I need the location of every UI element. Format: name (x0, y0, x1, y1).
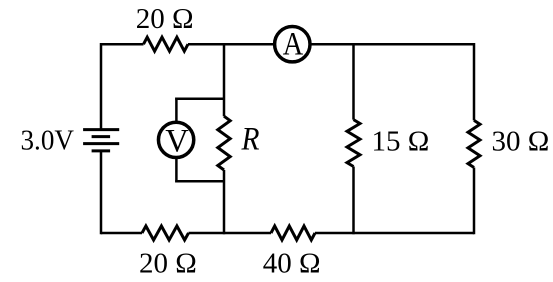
svg-text:40 Ω: 40 Ω (263, 248, 321, 280)
wire bottom middle segment (189, 232, 272, 235)
wire left rail upper (battery top lead) (100, 43, 103, 130)
svg-text:A: A (283, 27, 304, 63)
wire right rail upper (473, 43, 476, 120)
svg-text:V: V (165, 123, 189, 159)
wire 15ohm branch lower (352, 167, 355, 235)
wire top middle segment (188, 43, 274, 46)
resistor R30 (30 ohm) (468, 120, 480, 167)
voltmeter V1 circle (158, 122, 193, 157)
battery B1 plate long lower (83, 142, 119, 145)
battery B1 plate long top (83, 128, 119, 131)
svg-text:15 Ω: 15 Ω (372, 126, 430, 158)
svg-text:30 Ω: 30 Ω (492, 125, 550, 157)
wire bottom right segment (315, 232, 474, 235)
wire voltmeter loop top horizontal (175, 97, 224, 100)
wire R branch lower (223, 170, 226, 234)
wire left rail lower (battery bottom lead) (100, 151, 103, 234)
resistor R (zigzag vertical) (218, 116, 230, 170)
wire right rail lower (473, 168, 476, 235)
resistor R15 (15 ohm) (347, 120, 360, 167)
battery B1 plate short upper (92, 135, 111, 138)
resistor R_bot20 (20 ohm bottom) (142, 226, 189, 240)
svg-text:20 Ω: 20 Ω (139, 248, 197, 280)
ammeter A1 circle (275, 27, 310, 62)
resistor R_top20 (20 ohm top) (144, 37, 189, 51)
wire voltmeter loop bottom vertical stub (175, 158, 178, 182)
wire top right segment (310, 43, 474, 46)
wire voltmeter loop top vertical stub (175, 98, 178, 123)
wire bottom left segment (101, 232, 142, 235)
resistor R40 (40 ohm) (271, 226, 315, 240)
svg-text:20 Ω: 20 Ω (136, 3, 194, 35)
wire R branch upper (223, 44, 226, 116)
wire voltmeter loop bottom horizontal (175, 180, 224, 183)
wire 15ohm branch upper (352, 44, 355, 119)
svg-text:3.0V: 3.0V (21, 124, 75, 156)
wire top-left segment (101, 43, 144, 46)
svg-text:R: R (241, 122, 260, 158)
battery B1 plate short bottom (92, 149, 111, 152)
